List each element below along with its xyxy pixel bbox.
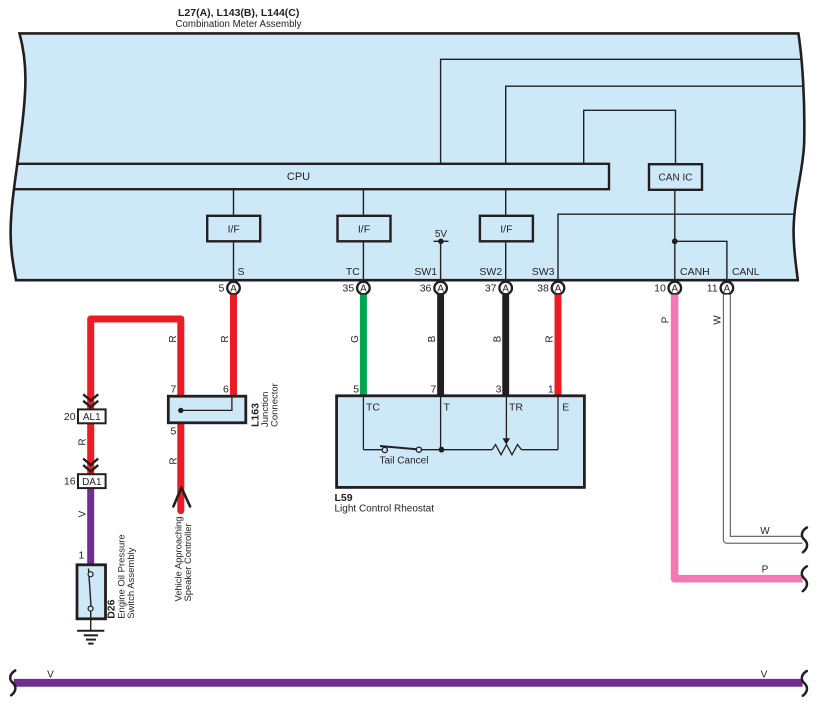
wire SW3 (pin 38 to right edge): [558, 214, 812, 281]
svg-text:Light Control Rheostat: Light Control Rheostat: [335, 503, 435, 514]
svg-text:T: T: [444, 401, 451, 413]
svg-text:20: 20: [64, 411, 76, 423]
connector pin 38 (A): [552, 282, 565, 295]
splice chevrons above DA1: [83, 459, 98, 465]
svg-text:V: V: [761, 669, 768, 680]
connector AL1: [78, 409, 106, 423]
svg-text:CANH: CANH: [680, 266, 710, 278]
connector DA1: [78, 474, 106, 488]
svg-text:I/F: I/F: [228, 223, 240, 235]
tail cancel switch: [380, 446, 418, 449]
wire G (pin 35 TC to L59 pin 5): [360, 295, 367, 398]
svg-text:V: V: [77, 510, 88, 517]
svg-text:A: A: [437, 283, 444, 294]
svg-text:A: A: [672, 283, 679, 294]
svg-text:A: A: [724, 283, 731, 294]
continuation squiggle P: [802, 566, 807, 591]
splice chevrons above AL1: [83, 394, 98, 400]
svg-text:5V: 5V: [435, 229, 448, 240]
wire R (AL1 to DA1): [87, 423, 94, 475]
svg-text:5: 5: [218, 282, 224, 294]
svg-text:R: R: [545, 335, 556, 342]
wire CAN IC top to CPU: [584, 110, 676, 170]
connector pin 35 (A): [357, 282, 370, 295]
wire R main branch (L163 pin 7 up and left to AL1): [91, 319, 181, 411]
L59 internal wires: [362, 397, 364, 450]
svg-text:V: V: [47, 669, 54, 680]
svg-text:SW3: SW3: [532, 266, 555, 278]
svg-text:R: R: [220, 335, 231, 342]
svg-text:11: 11: [707, 282, 718, 294]
svg-text:P: P: [762, 565, 769, 576]
connector pin 10 (A): [669, 282, 682, 295]
svg-text:Combination Meter Assembly: Combination Meter Assembly: [176, 19, 302, 30]
svg-text:R: R: [77, 438, 88, 445]
engine oil pressure switch D26: [77, 565, 106, 619]
connector pin 36 (A): [434, 282, 447, 295]
wire R (pin 5 S to L163 pin 6): [230, 295, 237, 398]
svg-text:W: W: [760, 526, 770, 537]
svg-text:TC: TC: [366, 401, 380, 413]
rheostat wiper arrow: [503, 438, 511, 444]
svg-text:DA1: DA1: [82, 477, 102, 488]
svg-text:10: 10: [654, 282, 666, 294]
D26 switch contacts: [89, 569, 92, 607]
svg-text:S: S: [238, 266, 245, 278]
connector pin 11 (A): [721, 282, 734, 295]
light control rheostat L59: [337, 396, 585, 488]
svg-text:Switch Assembly: Switch Assembly: [126, 547, 137, 619]
CAN IC U-block: [649, 164, 702, 190]
wire V bottom rail: [14, 679, 803, 687]
svg-text:A: A: [555, 283, 562, 294]
svg-text:TR: TR: [509, 401, 523, 413]
wire R (pin 38 SW3 to L59 pin 1): [555, 295, 562, 398]
svg-text:7: 7: [431, 383, 437, 395]
svg-text:36: 36: [420, 282, 432, 294]
svg-text:L59: L59: [335, 492, 353, 504]
node T junction: [439, 447, 445, 453]
junction connector L163: [168, 396, 246, 423]
wire SW1 lower (5V terminal to pin 36): [440, 241, 442, 281]
svg-text:CPU: CPU: [287, 171, 310, 183]
svg-text:37: 37: [485, 282, 497, 294]
svg-text:Tail Cancel: Tail Cancel: [380, 455, 429, 466]
svg-text:SW1: SW1: [414, 266, 437, 278]
svg-text:W: W: [713, 315, 724, 325]
wire V (DA1 to D26 pin 1): [87, 488, 94, 566]
wire to ground: [90, 619, 92, 631]
I/F block 1: [207, 216, 260, 242]
svg-text:CAN IC: CAN IC: [659, 173, 693, 184]
svg-text:AL1: AL1: [83, 412, 101, 423]
wire P CANH (pin 10 to page edge): [675, 295, 803, 579]
svg-text:3: 3: [496, 383, 502, 395]
svg-text:R: R: [168, 335, 179, 342]
wire B (pin 36 SW1 to L59 pin 7): [437, 295, 444, 398]
svg-text:E: E: [562, 401, 569, 413]
svg-text:B: B: [492, 335, 503, 342]
svg-text:16: 16: [64, 476, 76, 488]
CPU U-block: [2, 164, 609, 189]
svg-text:SW2: SW2: [479, 266, 502, 278]
continuation squiggle V left: [10, 671, 15, 696]
connector pin 37 (A): [499, 282, 512, 295]
junction node CANH/CANL: [672, 238, 678, 244]
I/F block 3: [480, 216, 533, 242]
svg-text:R: R: [169, 457, 180, 464]
meter box outline: [11, 33, 805, 280]
wire S internal (pin 5 to I/F): [233, 170, 235, 281]
svg-text:A: A: [230, 283, 237, 294]
svg-text:7: 7: [171, 383, 177, 395]
rheostat resistor: [492, 445, 522, 455]
svg-text:1: 1: [78, 550, 84, 562]
wire R (L163 pin 5 down to speaker controller): [177, 422, 184, 510]
svg-text:A: A: [502, 283, 509, 294]
harness arrow to speaker controller: [173, 488, 190, 507]
wire W CANL (pin 11 to page edge): [727, 295, 803, 540]
continuation squiggle V right: [802, 671, 807, 696]
svg-text:5: 5: [171, 426, 177, 438]
svg-text:L27(A), L143(B), L144(C): L27(A), L143(B), L144(C): [178, 7, 299, 19]
wire TC internal (pin 35 to I/F): [362, 170, 364, 281]
svg-text:1: 1: [548, 383, 554, 395]
svg-text:I/F: I/F: [500, 223, 512, 235]
svg-text:CANL: CANL: [732, 267, 760, 278]
svg-text:TC: TC: [346, 266, 360, 278]
svg-text:6: 6: [223, 383, 229, 395]
wire CAN IC bottom to pin 10: [674, 190, 676, 281]
svg-text:Connector: Connector: [270, 383, 281, 427]
wire CANL branch to pin 11: [675, 241, 727, 281]
connector pin 5 (A): [227, 282, 240, 295]
wire SW2 (pin 37 via I/F and CPU to right edge): [506, 86, 812, 281]
svg-text:35: 35: [343, 282, 355, 294]
svg-text:A: A: [360, 283, 367, 294]
svg-text:5: 5: [353, 383, 359, 395]
I/F block 2: [338, 216, 391, 242]
svg-text:Speaker Controller: Speaker Controller: [182, 523, 193, 601]
svg-text:G: G: [350, 335, 361, 343]
continuation squiggle W: [802, 528, 807, 553]
wire SW1 upper (CPU top to right edge): [441, 59, 812, 170]
svg-text:B: B: [427, 335, 438, 342]
ground: [77, 630, 104, 632]
svg-text:38: 38: [537, 282, 549, 294]
svg-text:P: P: [661, 316, 672, 323]
svg-text:I/F: I/F: [358, 223, 370, 235]
wire B (pin 37 SW2 to L59 pin 3): [502, 295, 509, 398]
